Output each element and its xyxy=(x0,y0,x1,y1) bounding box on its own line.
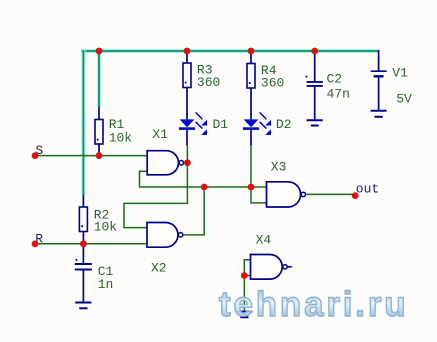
svg-text:D2: D2 xyxy=(276,117,292,132)
battery V1 xyxy=(371,50,412,111)
svg-text:1n: 1n xyxy=(98,277,114,292)
node bus-C2 xyxy=(311,48,318,55)
port R xyxy=(32,231,44,247)
node X4 input xyxy=(241,272,248,279)
ground (C2) xyxy=(307,120,323,125)
svg-text:47n: 47n xyxy=(327,87,350,102)
nand gate X1 xyxy=(147,127,183,175)
capacitor C2 xyxy=(306,51,350,120)
wire S input row xyxy=(35,155,147,157)
port out xyxy=(352,182,379,199)
resistor R2 xyxy=(79,195,117,244)
resistor R4 xyxy=(247,51,284,119)
LED D2 xyxy=(243,112,292,145)
wire X1 output to X2 input (cross-coupling) xyxy=(124,145,187,227)
ground (V1) xyxy=(371,111,387,117)
LED D1 xyxy=(179,112,228,145)
svg-text:10k: 10k xyxy=(109,130,133,145)
svg-text:10k: 10k xyxy=(94,220,118,235)
svg-text:360: 360 xyxy=(261,75,284,90)
svg-text:C2: C2 xyxy=(327,72,343,87)
svg-text:tehnari.ru: tehnari.ru xyxy=(219,285,408,324)
nand gate X3 xyxy=(267,160,306,207)
svg-text:X4: X4 xyxy=(256,232,272,247)
ground (C1) xyxy=(75,303,91,309)
node R-R2-C1 xyxy=(80,240,87,247)
wire X3 lower input L xyxy=(251,187,267,203)
port S xyxy=(32,143,44,159)
svg-text:360: 360 xyxy=(197,75,220,90)
wire X1 output bubble to node xyxy=(183,162,187,164)
svg-text:X2: X2 xyxy=(151,260,167,275)
wire vertical feed left (bus to R2) xyxy=(81,50,85,195)
wire R input row xyxy=(35,243,147,245)
svg-text:X3: X3 xyxy=(271,160,287,175)
wire feedback row to X1 lower input xyxy=(140,171,267,187)
resistor R3 xyxy=(183,51,220,119)
watermark tehnari.ru xyxy=(219,285,408,324)
node S-R1 xyxy=(96,152,103,159)
svg-text:out: out xyxy=(356,182,379,197)
wire D2 cathode to X3 node xyxy=(250,145,252,187)
nand gate X2 xyxy=(147,223,183,276)
svg-text:D1: D1 xyxy=(213,117,229,132)
wire X4 lower input stub xyxy=(244,275,250,277)
svg-text:X1: X1 xyxy=(152,127,168,142)
nand gate X4 xyxy=(251,232,292,279)
svg-text:5V: 5V xyxy=(396,92,412,107)
node X1 output xyxy=(184,159,191,166)
wire top power bus xyxy=(81,49,379,53)
node X3 input xyxy=(248,184,255,191)
svg-text:V1: V1 xyxy=(392,66,408,81)
resistor R1 xyxy=(95,107,132,156)
wire X4 inputs tie xyxy=(244,260,250,312)
wire X3 output to out port xyxy=(306,193,355,195)
wire vertical feed to R1 xyxy=(97,51,101,107)
ground (X4) xyxy=(236,312,252,318)
node X2 feedback xyxy=(201,184,208,191)
node bus-R4 xyxy=(248,48,255,55)
capacitor C1 xyxy=(75,244,114,302)
node bus-R1 xyxy=(96,48,103,55)
node bus-R3 xyxy=(184,48,191,55)
wire X2 output up to feedback node xyxy=(183,187,204,235)
